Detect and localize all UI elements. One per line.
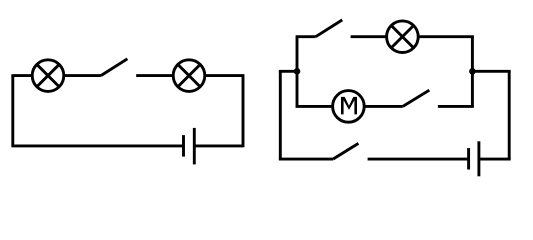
battery B2 long plate (477, 141, 480, 176)
wire switch S3 to middle-right corner (438, 105, 473, 106)
wire battery B1 to bottom-right corner (194, 144, 243, 147)
battery B1 long plate (193, 128, 196, 164)
wire bottom of left loop to battery B1 (11, 144, 183, 147)
wire motor M1 to switch S3 (364, 105, 403, 108)
switch S2 blade (open, top branch) (316, 20, 343, 37)
wire lamp L1 to switch S1 (64, 74, 101, 77)
lamp L3 cross stroke 1 (391, 26, 413, 48)
battery B2 short plate (467, 148, 470, 169)
node junction dot right (469, 68, 476, 75)
lamp L2 cross stroke 2 (178, 64, 200, 86)
wire bottom-left segment of right loop (280, 158, 333, 159)
lamp L1 circle (32, 60, 64, 92)
wire lamp L3 to top-right corner (418, 37, 472, 38)
battery B1 short plate (182, 135, 185, 157)
node junction dot left (294, 68, 301, 75)
motor M1 circle (333, 91, 365, 123)
wire top branch left segment (296, 35, 316, 38)
wire middle branch left segment to motor M1 (297, 105, 333, 106)
lamp L1 cross stroke 2 (37, 64, 59, 86)
wire top-left segment of left loop (13, 74, 33, 75)
wire right vertical of left loop (242, 76, 245, 148)
wire top-right segment of left loop (204, 74, 244, 77)
lamp L1 cross stroke 1 (37, 64, 59, 86)
lamp L3 circle (387, 21, 419, 53)
lamp L2 circle (173, 60, 205, 92)
lamp L2 cross stroke 1 (178, 64, 200, 86)
wire switch S2 to lamp L3 (351, 35, 387, 38)
switch S3 blade (open, middle branch) (403, 90, 430, 106)
wire battery B2 to bottom-right corner (479, 158, 509, 159)
switch S1 blade (open) (101, 59, 128, 76)
wire left node stub to junction (280, 70, 297, 71)
wire left vertical of left loop (11, 76, 14, 146)
wire inner right vertical between branches (471, 37, 474, 107)
wire right node stub junction to outer (472, 71, 509, 72)
switch S4 blade (open, bottom) (333, 143, 358, 159)
wire outer right vertical of right loop (508, 71, 511, 159)
motor M1 letter M (341, 97, 357, 115)
wire outer left vertical of right loop (279, 71, 282, 159)
wire switch S1 to lamp L2 (136, 74, 173, 77)
wire inner left vertical between branches (296, 37, 299, 107)
lamp L3 cross stroke 2 (391, 26, 413, 48)
wire switch S4 to battery B2 (368, 158, 469, 161)
